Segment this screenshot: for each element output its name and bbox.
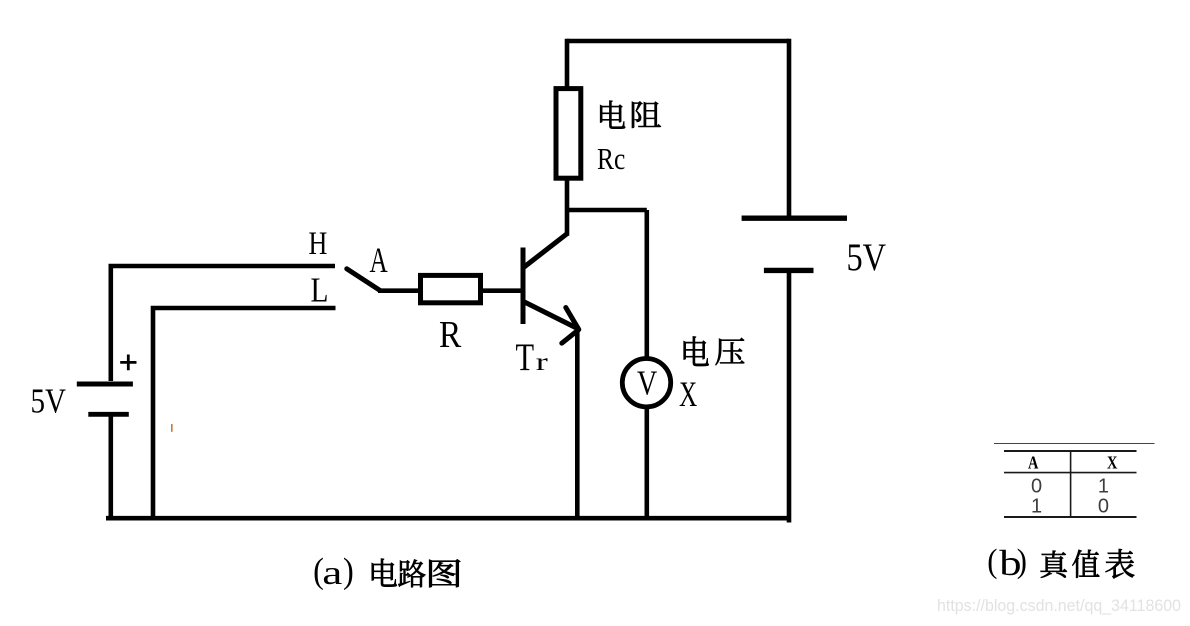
stray orange mark artifact — [171, 424, 173, 432]
svg-text:5V: 5V — [847, 235, 887, 279]
resistor Rc (vertical box) — [556, 89, 581, 179]
battery B2 positive plate (long) — [742, 215, 847, 220]
wire: top rail from Rc top to right branch — [567, 39, 789, 44]
svg-text:5V: 5V — [31, 381, 67, 420]
wire: collector node horizontal to voltmeter branch — [567, 208, 647, 213]
truth table bottom rule — [1004, 516, 1137, 518]
svg-text:X: X — [679, 375, 697, 414]
truth table header underline — [1004, 472, 1137, 474]
wire: voltmeter top lead — [644, 210, 649, 360]
wire: Rc top lead — [565, 39, 570, 88]
svg-text:): ) — [1017, 541, 1027, 579]
wire: battery B1 negative lead to bottom rail — [109, 414, 114, 520]
svg-text:1: 1 — [1031, 496, 1042, 518]
svg-text:r: r — [536, 348, 549, 376]
transistor Tr collector diagonal — [524, 234, 567, 268]
switch A (arm from H toward R) — [347, 269, 380, 291]
battery B1 positive plate (long) — [77, 382, 133, 387]
svg-text:R: R — [439, 313, 461, 355]
wire: H input rail and left drop to battery — [111, 266, 335, 381]
svg-text:1: 1 — [1098, 475, 1109, 497]
truth table top thin rule — [994, 443, 1155, 445]
truth table column divider — [1070, 450, 1072, 517]
transistor Tr emitter arrowhead — [562, 308, 579, 344]
label 电阻 (resistor) — [600, 101, 625, 129]
battery B1 negative plate (short) — [88, 412, 129, 417]
wire: L input rail and inner drop to bottom rail — [153, 308, 336, 520]
svg-text:0: 0 — [1031, 475, 1042, 497]
wire: resistor R to transistor base — [482, 288, 523, 293]
wire: right branch vertical from battery negative to bottom rail — [787, 271, 792, 523]
wire: Rc bottom lead / collector drop — [565, 179, 570, 236]
wire: bottom rail — [106, 516, 791, 521]
svg-text:Rc: Rc — [597, 143, 625, 177]
wire: emitter vertical down to bottom rail — [575, 327, 580, 520]
wire: switch arm to resistor R — [378, 288, 419, 293]
wire: voltmeter bottom lead — [644, 406, 649, 520]
svg-text:0: 0 — [1098, 496, 1109, 518]
svg-text:https://blog.csdn.net/qq_34118: https://blog.csdn.net/qq_34118600 — [937, 597, 1181, 615]
truth table head rule — [1004, 450, 1137, 452]
transistor Tr emitter diagonal — [524, 302, 579, 330]
transistor Tr base bar — [521, 248, 526, 325]
svg-text:A: A — [1028, 452, 1039, 473]
svg-text:V: V — [637, 364, 657, 403]
polarity + sign of battery B1 — [120, 355, 136, 371]
svg-text:X: X — [1107, 452, 1118, 473]
svg-text:a: a — [322, 553, 342, 591]
resistor R (horizontal box) — [421, 275, 481, 302]
wire: right branch vertical down to battery positive plate — [787, 39, 792, 216]
battery B2 negative plate (short) — [764, 268, 814, 273]
svg-text:A: A — [370, 240, 389, 281]
svg-text:H: H — [309, 226, 328, 262]
svg-text:(: ( — [987, 541, 997, 579]
svg-text:T: T — [516, 335, 535, 378]
svg-text:L: L — [311, 270, 329, 309]
label 电压 (voltage) — [684, 336, 709, 366]
voltmeter V X (circle body) — [622, 359, 670, 407]
svg-text:): ) — [343, 551, 354, 591]
